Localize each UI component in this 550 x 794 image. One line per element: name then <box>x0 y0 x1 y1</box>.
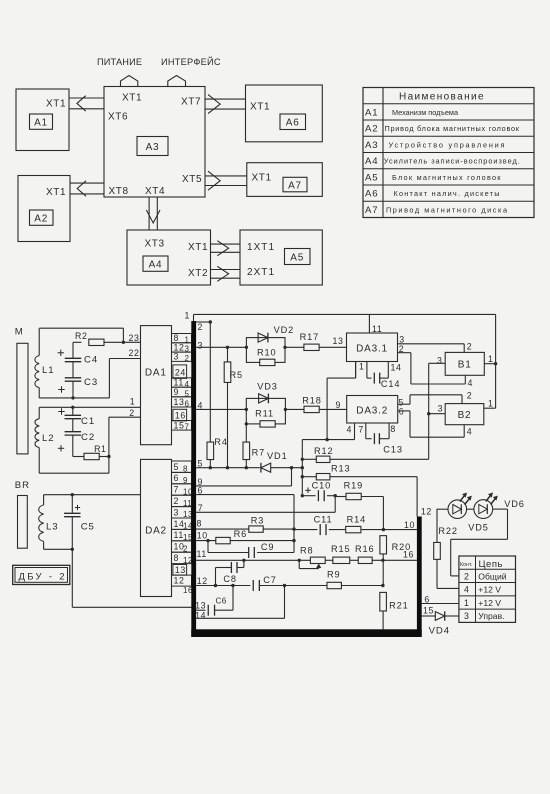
svg-text:C9: C9 <box>261 542 275 552</box>
svg-text:XT6: XT6 <box>108 111 128 122</box>
svg-text:R6: R6 <box>234 529 248 539</box>
svg-text:4: 4 <box>467 427 473 437</box>
resistor R21 <box>380 592 387 611</box>
connector plate BR <box>18 496 28 549</box>
IC DA3.2 <box>347 396 398 424</box>
svg-text:XT4: XT4 <box>145 186 165 197</box>
capacitor C5 (polarized) <box>71 495 73 514</box>
svg-text:5: 5 <box>174 462 180 472</box>
resistor R7 <box>243 442 250 460</box>
bus A3-A6 (XT7-XT1) <box>205 98 246 100</box>
svg-text:3: 3 <box>198 340 204 350</box>
svg-text:XT7: XT7 <box>181 97 201 108</box>
svg-text:24: 24 <box>175 367 186 377</box>
capacitor C3 (polarized) <box>72 362 74 378</box>
resistor R22 <box>436 509 438 543</box>
resistor R4 <box>207 442 214 460</box>
svg-text:13: 13 <box>175 565 186 575</box>
svg-text:1: 1 <box>464 598 469 608</box>
svg-text:DA3.1: DA3.1 <box>356 344 388 355</box>
svg-text:VD5: VD5 <box>468 522 489 532</box>
svg-text:6: 6 <box>185 400 190 409</box>
svg-text:4: 4 <box>464 585 469 595</box>
svg-text:10: 10 <box>197 531 208 541</box>
svg-text:Конт.: Конт. <box>460 562 472 568</box>
capacitor C14 <box>366 362 368 379</box>
svg-text:Управ.: Управ. <box>478 611 504 621</box>
wire pin 12 <box>196 585 250 587</box>
svg-text:R8: R8 <box>300 545 314 555</box>
svg-text:C1: C1 <box>81 416 95 427</box>
svg-text:Общий: Общий <box>478 571 506 581</box>
svg-text:L1: L1 <box>42 365 54 376</box>
board frame left bar <box>191 321 196 637</box>
svg-text:2: 2 <box>464 571 469 581</box>
svg-text:13: 13 <box>174 397 185 407</box>
svg-text:R16: R16 <box>355 544 375 554</box>
resistor R17 <box>304 344 319 350</box>
svg-text:11: 11 <box>372 324 382 334</box>
svg-text:B2: B2 <box>458 410 472 421</box>
block A7 <box>247 163 322 197</box>
svg-text:13: 13 <box>333 336 344 346</box>
wire to R18 <box>285 408 304 410</box>
svg-text:A6: A6 <box>286 118 300 129</box>
svg-text:1: 1 <box>488 354 494 364</box>
block A4 <box>127 230 211 285</box>
svg-text:BR: BR <box>15 480 30 491</box>
svg-text:A3: A3 <box>365 140 379 151</box>
diode VD1 <box>261 463 271 472</box>
DA1 pin field <box>172 334 192 343</box>
svg-text:A1: A1 <box>365 107 379 118</box>
DA2 pin box 13 <box>173 565 187 576</box>
wire pin 2 <box>196 321 210 323</box>
block A1 <box>16 89 69 151</box>
svg-text:R9: R9 <box>327 570 341 580</box>
svg-text:1XT1: 1XT1 <box>247 242 274 253</box>
block A5 <box>240 230 322 285</box>
svg-text:2: 2 <box>467 341 473 351</box>
svg-text:1: 1 <box>488 398 494 408</box>
inductor L2 <box>38 407 40 418</box>
svg-text:7: 7 <box>198 503 204 513</box>
svg-text:3: 3 <box>438 403 444 413</box>
resistor R18 <box>304 406 319 412</box>
DA1 pin box 24 <box>173 365 187 379</box>
bus A3-A7 (XT5-XT1) <box>205 175 247 177</box>
svg-text:10: 10 <box>404 520 415 530</box>
wire pin 14 <box>196 617 284 619</box>
wire to frame <box>71 549 73 607</box>
svg-text:XT3: XT3 <box>145 239 165 250</box>
svg-text:VD2: VD2 <box>274 325 295 335</box>
svg-text:3: 3 <box>174 507 180 517</box>
parts list table (Наименование) <box>363 88 534 218</box>
svg-text:+12 V: +12 V <box>478 585 501 595</box>
svg-text:8: 8 <box>174 553 180 563</box>
svg-text:Наименование: Наименование <box>399 91 484 102</box>
svg-text:9: 9 <box>336 400 342 410</box>
svg-text:4: 4 <box>468 378 474 388</box>
wire pin 5 <box>196 467 260 469</box>
svg-text:B1: B1 <box>458 360 472 371</box>
board frame right bar <box>417 517 422 637</box>
svg-text:2: 2 <box>467 391 473 401</box>
svg-text:DA3.2: DA3.2 <box>356 406 388 417</box>
svg-text:R10: R10 <box>257 347 277 357</box>
wire L1 top to DA1 pin 23 <box>39 327 123 329</box>
svg-text:A3: A3 <box>146 142 160 153</box>
svg-text:C4: C4 <box>84 354 98 365</box>
svg-text:3: 3 <box>464 611 469 621</box>
svg-text:Привод магнитного диска: Привод магнитного диска <box>386 205 508 214</box>
capacitor C1 (polarized) <box>72 407 74 415</box>
svg-text:R15: R15 <box>331 544 351 554</box>
wire pin 11 <box>196 559 310 561</box>
svg-text:DA1: DA1 <box>145 368 167 379</box>
wire to C14/pin1 <box>326 378 328 440</box>
svg-text:R2: R2 <box>75 331 87 341</box>
wire to R17 <box>285 346 304 348</box>
resistor R2 <box>73 341 82 343</box>
svg-text:L2: L2 <box>42 433 54 444</box>
wire R13 to pin 12 <box>416 477 418 517</box>
svg-text:C2: C2 <box>81 432 95 443</box>
interface connector symbol (ИНТЕРФЕЙС) <box>168 76 186 88</box>
wire L2 top to DA1 pin 1 <box>39 406 140 408</box>
svg-text:12: 12 <box>197 576 208 586</box>
wire pin 8 with resistor R3 <box>196 528 249 530</box>
svg-text:C6: C6 <box>216 597 227 606</box>
svg-text:A4: A4 <box>365 156 379 167</box>
svg-text:C13: C13 <box>383 444 403 454</box>
wire L2 bottom / DA1 pin 2 <box>39 472 109 474</box>
svg-text:XT1: XT1 <box>122 93 142 104</box>
svg-text:6: 6 <box>174 473 180 483</box>
svg-text:XT1: XT1 <box>250 102 270 113</box>
capacitor C4 (polarized) <box>72 342 74 358</box>
DA2 pin cell 12 <box>172 575 192 586</box>
svg-text:A2: A2 <box>34 214 48 225</box>
wire pin 10 with resistor R6 <box>196 540 216 542</box>
DA2 pin field <box>172 461 192 472</box>
svg-text:+12 V: +12 V <box>478 598 501 608</box>
svg-text:R5: R5 <box>230 370 244 380</box>
svg-text:16: 16 <box>175 411 186 421</box>
svg-text:3: 3 <box>174 352 180 362</box>
svg-text:A2: A2 <box>365 124 379 135</box>
svg-text:XT1: XT1 <box>46 99 66 110</box>
svg-text:1: 1 <box>185 310 191 320</box>
svg-text:9: 9 <box>174 387 180 397</box>
svg-text:C7: C7 <box>263 575 277 585</box>
wire pin 3 <box>196 346 246 348</box>
svg-text:15: 15 <box>423 605 434 615</box>
title box ДБУ-2 <box>13 565 70 584</box>
wire pin 13 / capacitor C6 <box>196 609 205 611</box>
svg-text:A5: A5 <box>290 253 304 264</box>
node column x302 <box>301 440 303 496</box>
svg-text:Цепь: Цепь <box>479 559 503 570</box>
amplifier B2 <box>445 404 484 425</box>
svg-text:R12: R12 <box>314 446 334 456</box>
svg-text:Механизм подъема: Механизм подъема <box>392 108 459 117</box>
svg-text:6: 6 <box>399 407 405 417</box>
inductor L1 <box>38 328 40 355</box>
svg-text:C8: C8 <box>223 574 237 584</box>
svg-text:8: 8 <box>390 424 396 434</box>
svg-text:7: 7 <box>174 485 180 495</box>
block A6 <box>246 85 323 142</box>
svg-text:XT1: XT1 <box>252 173 272 184</box>
svg-text:C11: C11 <box>314 514 333 524</box>
svg-text:1: 1 <box>130 397 136 407</box>
inductor L3 <box>43 495 45 505</box>
IC DA3.1 <box>347 333 398 362</box>
wire R19 to node 10 <box>382 497 384 530</box>
svg-text:A5: A5 <box>365 172 379 183</box>
svg-text:DA2: DA2 <box>145 526 167 537</box>
svg-text:XT5: XT5 <box>182 174 202 185</box>
LED VD6 <box>467 508 474 510</box>
wire VD6 to Общий <box>493 508 508 510</box>
resistor R5 <box>224 362 231 383</box>
wire L3 top to DA2 <box>44 494 141 496</box>
svg-text:13: 13 <box>195 601 206 611</box>
svg-text:R21: R21 <box>389 601 409 611</box>
svg-text:VD1: VD1 <box>267 451 288 461</box>
wire pin 9 <box>196 485 291 487</box>
svg-text:C10: C10 <box>312 481 332 491</box>
svg-text:C3: C3 <box>84 377 98 388</box>
bus A3-A4 (XT4-XT3) <box>148 197 150 230</box>
svg-text:R20: R20 <box>392 542 412 552</box>
wire down to R5 <box>227 347 229 362</box>
svg-text:14: 14 <box>391 362 402 372</box>
bus A2-A3 (XT1-XT8) <box>70 182 104 184</box>
svg-text:R11: R11 <box>255 409 274 419</box>
svg-text:4: 4 <box>198 400 204 410</box>
wire pin 7 <box>196 511 335 513</box>
amplifier B1 <box>445 352 484 375</box>
svg-text:R18: R18 <box>302 395 322 405</box>
svg-text:R13: R13 <box>331 463 351 473</box>
svg-text:23: 23 <box>129 333 140 343</box>
pin 11 stub <box>368 314 370 333</box>
board frame bottom bar <box>191 629 421 637</box>
svg-text:22: 22 <box>129 348 140 358</box>
IC DA2 <box>141 459 172 596</box>
svg-text:A7: A7 <box>288 181 302 192</box>
wire pin 6 <box>196 494 294 496</box>
wire to B1/B2 pin1 <box>495 314 497 408</box>
connector plate M <box>17 343 28 454</box>
svg-text:7: 7 <box>185 423 190 432</box>
svg-text:2: 2 <box>185 354 190 363</box>
svg-text:5: 5 <box>198 459 204 469</box>
svg-text:XT1: XT1 <box>46 187 66 198</box>
svg-text:2XT1: 2XT1 <box>247 267 274 278</box>
svg-text:A7: A7 <box>365 205 379 216</box>
svg-text:8: 8 <box>197 519 203 529</box>
svg-text:R19: R19 <box>344 481 364 491</box>
svg-text:R3: R3 <box>251 515 265 525</box>
svg-text:M: M <box>15 327 24 338</box>
capacitor C2 (polarized) <box>72 419 74 432</box>
svg-text:R14: R14 <box>347 514 367 524</box>
wire L1 bottom to DA1 pin 22 <box>39 397 109 399</box>
svg-text:VD3: VD3 <box>257 381 278 391</box>
svg-text:A1: A1 <box>34 118 48 129</box>
svg-text:2: 2 <box>198 322 204 332</box>
svg-text:ИНТЕРФЕЙС: ИНТЕРФЕЙС <box>161 56 221 67</box>
svg-text:4: 4 <box>347 424 353 434</box>
svg-text:A4: A4 <box>149 260 163 271</box>
svg-text:XT8: XT8 <box>109 186 129 197</box>
svg-text:2: 2 <box>129 408 135 418</box>
power connector symbol (ПИТАНИЕ) <box>121 76 138 88</box>
junction <box>122 341 125 344</box>
svg-text:R4: R4 <box>214 437 228 447</box>
diode VD3 with resistor R11 (parallel) <box>246 398 285 424</box>
svg-text:1: 1 <box>359 362 365 372</box>
wire VD3 block to R7 <box>245 424 247 442</box>
svg-text:14: 14 <box>195 611 206 621</box>
bus A4-A5 (XT1-1XT1) <box>210 243 240 245</box>
svg-text:12: 12 <box>174 576 185 586</box>
wire net 1 (top rail) <box>194 313 496 315</box>
IC DA1 <box>141 326 172 445</box>
svg-text:15: 15 <box>174 420 185 430</box>
svg-text:A6: A6 <box>365 189 379 200</box>
svg-text:VD4: VD4 <box>429 626 450 637</box>
svg-text:Блок магнитных головок: Блок магнитных головок <box>392 173 501 182</box>
capacitor C9 <box>207 541 209 553</box>
svg-text:Привод блока магнитных головок: Привод блока магнитных головок <box>385 124 520 133</box>
wire pin 4 <box>196 408 246 410</box>
wire L3 bottom <box>44 548 73 550</box>
svg-text:C14: C14 <box>381 379 401 389</box>
svg-text:7: 7 <box>358 424 364 434</box>
svg-text:R7: R7 <box>252 447 266 457</box>
svg-text:Усилитель записи-воспроизвед.: Усилитель записи-воспроизвед. <box>384 157 520 166</box>
svg-text:XT1: XT1 <box>188 242 208 253</box>
block A2 <box>18 176 70 242</box>
resistor R1 <box>73 456 84 458</box>
svg-text:VD6: VD6 <box>504 499 525 509</box>
svg-text:L3: L3 <box>46 522 58 533</box>
block A3 (устройство управления) <box>104 87 205 198</box>
net DA3 bias wire <box>302 439 354 441</box>
svg-text:2: 2 <box>174 496 180 506</box>
DA1 pin box 16 <box>173 409 187 421</box>
wire down to R4 <box>209 322 211 442</box>
svg-text:3: 3 <box>399 334 405 344</box>
svg-text:XT2: XT2 <box>188 268 208 279</box>
LED VD5 <box>437 508 448 510</box>
svg-text:R1: R1 <box>94 444 106 454</box>
resistor R20 <box>380 536 387 554</box>
connector table (Цепь) <box>459 556 516 622</box>
svg-text:11: 11 <box>197 549 207 559</box>
svg-text:12: 12 <box>421 507 432 517</box>
diode VD2 with resistor R10 (parallel) <box>246 338 285 363</box>
svg-text:C5: C5 <box>81 522 95 533</box>
svg-text:R17: R17 <box>300 332 320 342</box>
bus A1-A3 (XT1-XT6) <box>69 97 104 99</box>
svg-text:ПИТАНИЕ: ПИТАНИЕ <box>97 57 142 67</box>
bus A4-A5 (XT2-2XT1) <box>210 269 240 271</box>
svg-text:R22: R22 <box>438 526 458 536</box>
wire R22 to +12V <box>436 559 438 588</box>
